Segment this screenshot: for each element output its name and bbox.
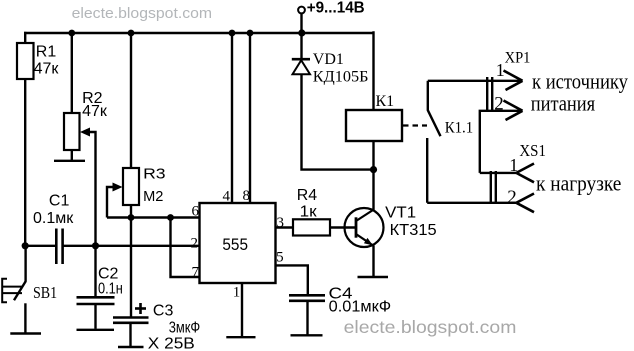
svg-text:2: 2 [494,93,504,114]
wire VD1 bottom lead to relay net [302,75,374,170]
svg-text:3: 3 [277,215,285,231]
wire C3 top lead [130,219,132,317]
diode VD1 [292,59,310,74]
wire SB1 top lead [24,246,26,282]
ground VT1 [358,276,389,278]
svg-text:VT1: VT1 [385,205,416,222]
wire R4 to base [330,226,356,228]
svg-text:к нагрузке: к нагрузке [536,171,621,196]
wire R3 bottom lead [130,205,132,219]
svg-text:R3: R3 [143,165,166,182]
wire C3 bottom lead [129,324,131,347]
transistor VT1 [345,208,384,247]
svg-text:+9...14В: +9...14В [307,0,365,17]
connector XP1 body lines [486,77,488,112]
wire collector lead [372,170,374,210]
wire pin5 net [276,265,308,294]
svg-text:К1: К1 [376,93,395,110]
wire R1 top lead [24,32,26,44]
svg-text:0.1н: 0.1н [98,281,123,298]
ground C4 [291,334,323,336]
ground C3 [118,346,144,348]
ground C2 [77,329,115,331]
wire pin6 net [107,216,200,218]
svg-text:К1.1: К1.1 [445,120,474,137]
svg-text:XS1: XS1 [519,141,546,160]
svg-text:C3: C3 [153,302,174,319]
wire XP1 pin1 [428,80,523,82]
svg-text:питания: питания [531,90,596,115]
power terminal circle [298,7,305,14]
dashed mechanical link [403,124,427,126]
svg-text:КТ315: КТ315 [390,222,437,239]
svg-text:6: 6 [192,204,200,220]
wire top power rail [24,32,375,34]
wire pin7 net [171,218,200,278]
svg-text:3мкФ: 3мкФ [169,320,201,337]
R2 wiper arrow [80,128,90,137]
ground pin1 [226,336,255,338]
wire K1.1 bottom lead [426,138,428,203]
wire R2 bottom lead [71,150,73,160]
wire XP1 pin2 [480,111,523,173]
capacitor C4 [289,295,325,301]
resistor R4 [293,219,330,235]
wire pin2 net right [63,245,200,247]
XS1 pin1 socket [516,164,534,173]
wire SB1 bottom lead [24,303,26,332]
wire SB1 blade [14,281,26,300]
resistor R2 [64,113,80,150]
XS1 pin2 socket [516,194,534,203]
wire R1 bottom lead [24,78,26,246]
svg-text:47к: 47к [34,61,60,78]
svg-text:1: 1 [496,60,505,80]
wire relay top lead [372,31,374,110]
R3 wiper arrow [113,183,123,192]
svg-text:1к: 1к [300,204,318,221]
svg-text:electe.blogspot.com: electe.blogspot.com [72,5,213,22]
wire XS1 pin2 [427,202,516,204]
op-amp-chip 555 U1 [200,203,276,283]
wire power terminal lead [300,14,302,34]
ground R2 [54,160,85,162]
wire pin3 to R4 [276,226,294,228]
wire pin4 lead [231,33,233,203]
svg-text:2: 2 [507,187,517,208]
wire pin8 lead [249,33,251,203]
svg-text:4: 4 [223,188,231,204]
wire K1.1 blade [428,110,441,136]
svg-text:7: 7 [192,265,200,281]
wire R3 wiper [107,187,115,218]
svg-text:5: 5 [276,250,284,266]
wire pin2 net left [25,245,56,247]
wire pin1 lead [241,283,243,336]
relay K1 coil [346,110,402,141]
svg-text:SB1: SB1 [33,283,57,302]
XP1 pin2 arrowhead [504,101,523,111]
svg-text:555: 555 [222,235,248,254]
svg-text:VD1: VD1 [313,51,344,68]
wire VD1 top lead [300,33,302,59]
wire R3 top lead [130,33,132,168]
svg-text:8: 8 [243,188,251,204]
svg-text:XP1: XP1 [505,50,531,67]
svg-text:КД105Б: КД105Б [313,69,369,86]
wire emitter lead [372,246,374,277]
connector XS1 body lines [490,171,492,204]
wire C2 top lead [94,246,96,297]
svg-text:electe.blogspot.com: electe.blogspot.com [344,317,517,337]
wire R2 top lead [71,33,73,113]
svg-text:R4: R4 [297,187,317,204]
resistor R1 [17,43,34,79]
svg-text:47к: 47к [82,103,108,120]
XP1 pin1 arrowhead [504,71,535,213]
svg-text:0.1мк: 0.1мк [33,210,74,227]
wire C2 bottom lead [94,305,96,329]
svg-text:М2: М2 [143,188,163,205]
wire R2 wiper to node [87,132,96,246]
capacitor C3 [113,318,149,323]
svg-text:R1: R1 [36,44,57,61]
C3 plus sign [135,303,146,314]
svg-text:2: 2 [191,236,199,252]
ground SB1 [10,332,41,334]
svg-text:1: 1 [509,155,518,175]
capacitor C2 [77,297,115,304]
wire XS1 pin1 [480,172,517,174]
svg-text:Х 25В: Х 25В [148,335,195,351]
resistor R3 [123,168,139,205]
capacitor C1 [56,229,62,265]
wire K1.1 top lead [427,81,429,111]
wire relay bottom lead [372,141,374,170]
wire C4 bottom lead [306,302,308,335]
SB1 pushbutton actuator [2,279,22,303]
svg-text:0.01мкФ: 0.01мкФ [329,299,392,316]
svg-text:1: 1 [233,285,241,301]
svg-text:C1: C1 [49,192,70,209]
